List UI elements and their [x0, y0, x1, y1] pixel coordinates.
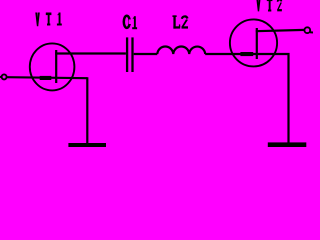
capacitor C1 left plate: [126, 37, 128, 72]
output terminal stub: [310, 31, 313, 33]
label VT2: [256, 0, 282, 11]
VT2 base thick bar: [240, 52, 253, 56]
transistor Q1 VT1 circle: [30, 43, 75, 90]
VT1 top output wire to C1: [55, 52, 126, 54]
inductor L2: [157, 46, 205, 54]
capacitor C1 right plate: [131, 37, 133, 72]
input terminal stub: [0, 76, 2, 78]
transistor Q2 VT2 circle: [230, 19, 277, 66]
VT1 vertical bar: [55, 50, 57, 83]
label L2: [172, 15, 188, 28]
wire C1 to L2: [134, 53, 158, 55]
wire input to corner (through VT1): [7, 77, 88, 78]
ground bar left: [68, 143, 106, 147]
label VT1: [35, 13, 62, 27]
VT2 vertical bar: [256, 28, 258, 59]
output terminal: [304, 27, 310, 33]
wire L2 to VT2 and down to ground: [205, 54, 288, 143]
VT2 top output wire: [256, 30, 305, 31]
label C1: [124, 16, 137, 30]
VT1 down wire: [86, 77, 88, 143]
input terminal: [2, 74, 7, 79]
ground bar right: [268, 142, 307, 147]
VT1 base thick bar: [40, 76, 52, 80]
